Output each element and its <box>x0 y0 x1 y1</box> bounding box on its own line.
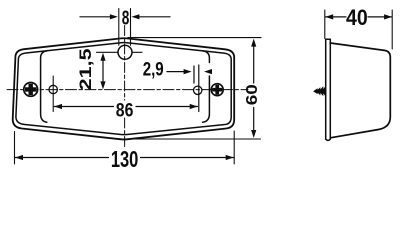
dimension 86: text backing <box>116 101 135 117</box>
dimension 8: extension lines <box>119 9 131 46</box>
dimension 2,9: leader arrow to slot <box>167 71 185 73</box>
dimension 8: right arrow <box>139 16 171 18</box>
vertical centerline <box>124 26 126 149</box>
lens boundary right bracket <box>203 51 210 122</box>
lamp front view outer outline <box>13 38 235 139</box>
side view screw tip (thread zigzag) <box>314 86 326 96</box>
dimension 60: down arrow <box>251 130 256 138</box>
dimension 60: bottom extension line (from dip) <box>127 138 261 140</box>
svg-text:21,5: 21,5 <box>76 48 95 90</box>
dimension 8: left arrow <box>80 16 111 18</box>
horizontal centerline <box>7 89 248 91</box>
side view mounting plate <box>326 39 331 140</box>
lamp front view inner outline <box>16 43 231 135</box>
dimension 130: right arrow <box>226 155 234 160</box>
screw right (Phillips head) <box>211 84 223 96</box>
dimension 21,5: dimension line with arrows <box>102 58 104 83</box>
dimension 60: up arrow <box>251 39 256 47</box>
86 left extension line through hole <box>52 76 54 112</box>
dimension 86: right arrow <box>190 104 198 109</box>
dimension 86: left arrow <box>54 104 62 109</box>
dimension 40: right arrow <box>384 14 392 19</box>
dimension 40: dimension line <box>325 16 392 18</box>
dimension 2,9: right arrow <box>204 69 212 74</box>
dimension 130: extension lines <box>15 131 235 164</box>
svg-text:2,9: 2,9 <box>143 58 164 80</box>
dimension 86: dimension line <box>54 106 197 108</box>
lens boundary left bracket <box>41 51 47 122</box>
screw left (Phillips head) <box>24 83 38 97</box>
top mounting hole <box>118 45 132 59</box>
svg-text:40: 40 <box>346 5 368 30</box>
svg-text:130: 130 <box>111 146 139 172</box>
slot feature right edge / 86 right extension through hole <box>198 65 200 112</box>
dimension 60: top extension line (from peak) <box>128 37 261 39</box>
svg-text:8: 8 <box>122 7 130 29</box>
dimension 40: left arrow <box>325 14 333 19</box>
dimension 21,5: extension line at hole center <box>97 51 143 53</box>
dimension 130: dimension line <box>15 157 234 159</box>
dimension 40: extension lines <box>325 10 392 49</box>
dimension 130: left arrow <box>15 155 23 160</box>
svg-text:86: 86 <box>116 100 134 122</box>
svg-text:60: 60 <box>244 84 261 105</box>
slot feature left edge <box>193 66 195 83</box>
small hole right <box>194 86 202 94</box>
side view lens body <box>330 43 390 138</box>
dimension 60: dimension line <box>253 45 255 131</box>
small hole left <box>49 85 57 93</box>
